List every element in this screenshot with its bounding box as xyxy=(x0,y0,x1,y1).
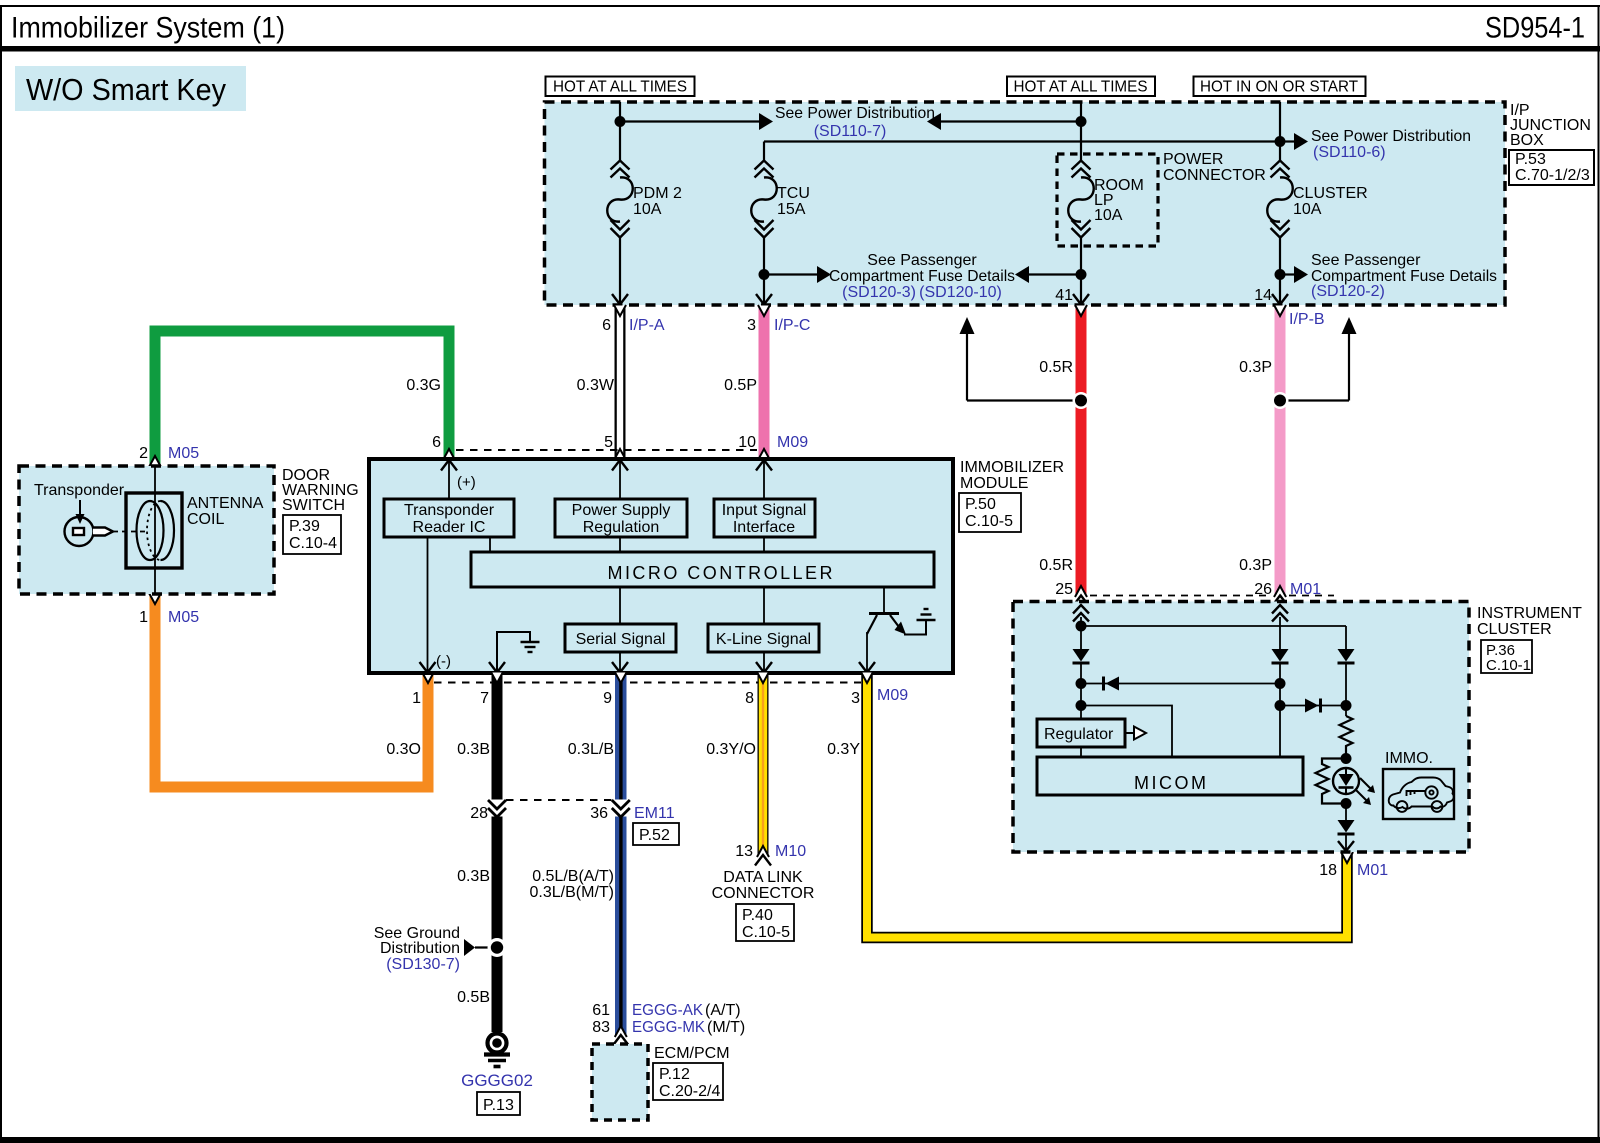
svg-text:0.3L/B: 0.3L/B xyxy=(568,741,614,758)
svg-text:P.50: P.50 xyxy=(965,496,996,513)
node dots on pink branch xyxy=(1275,678,1286,689)
svg-text:INSTRUMENT: INSTRUMENT xyxy=(1477,605,1582,622)
wire top horizontal to right branch xyxy=(1081,625,1346,627)
wire into Regulator xyxy=(1080,706,1082,720)
svg-text:3: 3 xyxy=(747,317,756,334)
Transponder Reader IC box xyxy=(384,499,514,537)
svg-text:M05: M05 xyxy=(168,609,199,626)
wire 0.3L/B blue (pin 9) xyxy=(530,672,631,1046)
diode E xyxy=(1338,820,1355,834)
note See Power Distribution (SD110-7) xyxy=(775,105,935,140)
svg-text:0.3B: 0.3B xyxy=(457,741,490,758)
svg-text:M01: M01 xyxy=(1357,862,1388,879)
arrow right toward See Passenger xyxy=(817,266,831,283)
note See Power Distribution (SD110-6) xyxy=(1311,128,1471,161)
wire 0.3P (pin14 pink) xyxy=(1239,305,1321,606)
wire ISI to micro controller xyxy=(763,537,765,552)
DATA LINK CONNECTOR label xyxy=(712,869,815,941)
See Ground Distribution note xyxy=(374,925,492,973)
diode B (pointing left) xyxy=(1104,677,1120,691)
wire to SD110-6 arrow xyxy=(1280,140,1294,142)
node dot3 xyxy=(1076,700,1087,711)
svg-text:HOT IN ON OR START: HOT IN ON OR START xyxy=(1200,79,1358,96)
svg-text:CLUSTER: CLUSTER xyxy=(1293,185,1368,202)
MICOM box xyxy=(1037,757,1303,795)
svg-text:Serial Signal: Serial Signal xyxy=(576,631,666,648)
node: dot on black wire xyxy=(488,938,507,957)
svg-text:See Power Distribution: See Power Distribution xyxy=(1311,128,1471,145)
svg-text:IMMO.: IMMO. xyxy=(1385,750,1433,767)
svg-text:POWER: POWER xyxy=(1163,151,1223,168)
svg-text:(SD110-7): (SD110-7) xyxy=(814,123,887,140)
svg-text:83: 83 xyxy=(592,1019,610,1036)
svg-text:EM11: EM11 xyxy=(634,805,675,822)
svg-text:2: 2 xyxy=(139,445,148,462)
svg-text:TCU: TCU xyxy=(777,185,810,202)
immobilizer module box xyxy=(369,459,953,673)
svg-text:I/P-A: I/P-A xyxy=(629,317,665,334)
svg-text:0.3W: 0.3W xyxy=(577,377,615,394)
wire 0.3W (pin5 white) xyxy=(577,305,626,460)
wire to SD120-2 arrow xyxy=(1280,273,1294,275)
svg-text:0.5B: 0.5B xyxy=(457,989,490,1006)
svg-text:ANTENNA: ANTENNA xyxy=(187,495,264,512)
label HOT IN ON OR START xyxy=(1194,77,1366,97)
svg-text:(SD120-3) (SD120-10): (SD120-3) (SD120-10) xyxy=(842,284,1002,301)
svg-text:(M/T): (M/T) xyxy=(707,1019,745,1036)
svg-text:CLUSTER: CLUSTER xyxy=(1477,621,1552,638)
svg-text:MODULE: MODULE xyxy=(960,475,1028,492)
svg-text:M09: M09 xyxy=(777,434,808,451)
svg-text:10A: 10A xyxy=(633,201,662,218)
svg-text:HOT AT ALL TIMES: HOT AT ALL TIMES xyxy=(1014,79,1148,96)
svg-text:(SD120-2): (SD120-2) xyxy=(1311,283,1385,300)
I/P JUNCTION BOX side label xyxy=(1509,102,1594,185)
transistor Q1 xyxy=(867,587,936,671)
svg-text:(SD110-6): (SD110-6) xyxy=(1313,144,1386,161)
svg-text:EGGG-MK: EGGG-MK xyxy=(632,1019,705,1036)
wire 0.3Y/O (pin 8) xyxy=(706,672,771,866)
svg-text:CONNECTOR: CONNECTOR xyxy=(1163,167,1266,184)
svg-text:15A: 15A xyxy=(777,201,806,218)
svg-text:Compartment Fuse Details: Compartment Fuse Details xyxy=(829,268,1015,285)
svg-text:28: 28 xyxy=(470,805,488,822)
K-Line Signal box xyxy=(708,624,819,652)
transponder key symbol xyxy=(65,517,147,546)
wire regulator to MICOM xyxy=(1080,747,1082,757)
svg-text:P.53: P.53 xyxy=(1515,151,1546,168)
horizontal with diode D to right branch xyxy=(1280,705,1346,707)
wire TRIC to pin 1 xyxy=(427,537,429,671)
wire Serial Signal to pin 9 xyxy=(619,652,621,671)
wire 0.3G (green loop) xyxy=(149,331,455,467)
Power Supply Regulation box xyxy=(555,499,687,537)
svg-text:ECM/PCM: ECM/PCM xyxy=(654,1045,730,1062)
svg-text:IMMOBILIZER: IMMOBILIZER xyxy=(960,459,1064,476)
svg-text:7: 7 xyxy=(480,690,489,707)
svg-text:36: 36 xyxy=(590,805,608,822)
node: junction dot TCU low xyxy=(759,269,770,280)
POWER CONNECTOR label xyxy=(1163,151,1266,184)
wire: bus PDM2 to ROOM LP (y=121.5) xyxy=(620,120,1081,122)
svg-text:C.10-4: C.10-4 xyxy=(289,535,337,552)
svg-text:Input Signal: Input Signal xyxy=(722,502,807,519)
svg-text:Reader IC: Reader IC xyxy=(413,519,486,536)
svg-text:C.10-5: C.10-5 xyxy=(742,924,790,941)
svg-text:BOX: BOX xyxy=(1510,132,1544,149)
svg-text:8: 8 xyxy=(745,690,754,707)
pin exit arrows at box bottom xyxy=(612,294,628,305)
branch arrow up (red wire) xyxy=(960,317,1082,401)
wire 0.3Y (pin 3 to cluster pin 18) xyxy=(827,672,1353,938)
svg-text:Interface: Interface xyxy=(733,519,795,536)
diode D (pointing right) xyxy=(1305,699,1321,713)
IMMO indicator box with car icon xyxy=(1383,769,1454,819)
Regulator box xyxy=(1037,719,1125,747)
svg-text:SWITCH: SWITCH xyxy=(282,497,345,514)
svg-text:See Passenger: See Passenger xyxy=(867,252,977,269)
LED light arrows xyxy=(1356,778,1375,805)
svg-text:HOT AT ALL TIMES: HOT AT ALL TIMES xyxy=(553,79,687,96)
node dot LED bottom xyxy=(1341,798,1352,809)
pin 6 entry arrow xyxy=(441,460,457,471)
node dot top left xyxy=(1076,621,1087,632)
IMMOBILIZER MODULE side label xyxy=(959,459,1064,532)
pin 25 entry chevrons xyxy=(1073,605,1089,622)
svg-text:0.3P: 0.3P xyxy=(1239,359,1272,376)
svg-text:MICOM: MICOM xyxy=(1134,773,1206,793)
W/O Smart Key highlight xyxy=(15,66,246,111)
svg-text:P.40: P.40 xyxy=(742,907,773,924)
svg-text:See Power Distribution: See Power Distribution xyxy=(775,105,935,122)
wire micro to K-Line Signal xyxy=(763,587,765,624)
svg-text:9: 9 xyxy=(603,690,612,707)
wire dot3 to MICOM (via x=1172) xyxy=(1081,706,1172,758)
power connector dashed box xyxy=(1057,154,1158,246)
INSTRUMENT CLUSTER side label xyxy=(1477,605,1582,674)
svg-text:6: 6 xyxy=(602,317,611,334)
I/P junction box (dashed) xyxy=(545,102,1506,305)
svg-text:18: 18 xyxy=(1319,862,1337,879)
svg-text:13: 13 xyxy=(735,843,753,860)
svg-text:Regulator: Regulator xyxy=(1044,726,1114,743)
svg-text:C.10-5: C.10-5 xyxy=(965,513,1013,530)
wire pink branch vertical xyxy=(1279,617,1281,649)
svg-text:DATA LINK: DATA LINK xyxy=(723,869,803,886)
svg-text:M05: M05 xyxy=(168,445,199,462)
svg-text:(+): (+) xyxy=(457,474,476,491)
arrow left toward See Passenger xyxy=(1015,266,1029,283)
pin 18 exit chevrons xyxy=(1338,841,1354,851)
branch arrow up (pink wire) xyxy=(1280,317,1357,401)
module bottom pin exit arrows xyxy=(420,662,436,673)
node: junction dot CLUSTER low xyxy=(1275,269,1286,280)
antenna coil square xyxy=(126,493,182,568)
svg-text:COIL: COIL xyxy=(187,511,224,528)
diode C xyxy=(1272,649,1289,663)
node: junction dot ROOM LP bus xyxy=(1076,116,1087,127)
svg-text:25: 25 xyxy=(1055,581,1073,598)
svg-text:0.5R: 0.5R xyxy=(1039,557,1073,574)
wire red branch vertical xyxy=(1080,617,1082,649)
svg-text:10: 10 xyxy=(738,434,756,451)
node: junction dot CLUSTER bus xyxy=(1275,136,1286,147)
svg-text:10A: 10A xyxy=(1293,201,1322,218)
svg-text:1: 1 xyxy=(412,690,421,707)
svg-text:W/O Smart Key: W/O Smart Key xyxy=(26,72,226,107)
fuse PDM 2 10A xyxy=(607,102,682,303)
door warning switch box (dashed) xyxy=(19,466,274,594)
ground GGGG02 xyxy=(461,1034,533,1116)
connector 61/83 EGGG labels xyxy=(592,1002,745,1036)
svg-text:See Passenger: See Passenger xyxy=(1311,252,1421,269)
svg-text:SD954-1: SD954-1 xyxy=(1485,12,1585,45)
module connector dashed line (top) xyxy=(456,449,757,451)
node: junction dot PDM2 bus xyxy=(615,116,626,127)
svg-text:(SD130-7): (SD130-7) xyxy=(386,956,460,973)
svg-text:EGGG-AK: EGGG-AK xyxy=(632,1002,703,1019)
wire: bus TCU to CLUSTER (y=141.5) xyxy=(764,140,1280,142)
svg-text:P.39: P.39 xyxy=(289,518,320,535)
svg-text:1: 1 xyxy=(139,609,148,626)
svg-text:P.12: P.12 xyxy=(659,1066,690,1083)
svg-text:0.5R: 0.5R xyxy=(1039,359,1073,376)
svg-text:GGGG02: GGGG02 xyxy=(461,1071,533,1090)
svg-text:0.3Y/O: 0.3Y/O xyxy=(706,741,756,758)
svg-text:P.52: P.52 xyxy=(639,827,670,844)
arrow right toward See Power Distribution SD110-6 xyxy=(1294,133,1308,150)
arrow left toward See Power Distribution xyxy=(927,113,941,130)
wire 0.5R (pin41 red) xyxy=(1039,305,1089,606)
svg-text:MICRO CONTROLLER: MICRO CONTROLLER xyxy=(608,563,833,583)
pin 5 entry arrow xyxy=(612,460,628,471)
svg-text:10A: 10A xyxy=(1094,207,1123,224)
svg-text:C.20-2/4: C.20-2/4 xyxy=(659,1083,720,1100)
svg-text:Distribution: Distribution xyxy=(380,940,460,957)
ECM/PCM box (dashed) xyxy=(592,1044,730,1120)
module connector dashed line (bottom) xyxy=(434,682,861,684)
svg-text:6: 6 xyxy=(432,434,441,451)
note See Passenger Compartment Fuse Details (SD120-3)(SD120-10) xyxy=(829,252,1015,301)
svg-text:0.3O: 0.3O xyxy=(386,741,421,758)
svg-text:Transponder: Transponder xyxy=(34,482,125,499)
svg-text:PDM 2: PDM 2 xyxy=(633,185,682,202)
note See Passenger Compartment Fuse Details (SD120-2) xyxy=(1311,252,1497,300)
node: junction dot ROOM LP low xyxy=(1076,269,1087,280)
svg-text:P.13: P.13 xyxy=(483,1097,514,1114)
wire K-Line to pin 8 xyxy=(763,652,765,671)
svg-text:0.5P: 0.5P xyxy=(724,377,757,394)
svg-text:(A/T): (A/T) xyxy=(705,1002,741,1019)
node: junction dot on red wire xyxy=(1073,392,1090,409)
svg-text:0.3B: 0.3B xyxy=(457,868,490,885)
wire: TCU lower junction to text xyxy=(764,273,817,275)
arrow from label to key xyxy=(76,500,85,524)
svg-text:C.70-1/2/3: C.70-1/2/3 xyxy=(1515,167,1590,184)
svg-text:I/P-C: I/P-C xyxy=(774,317,810,334)
wire 0.3O (orange loop) xyxy=(149,593,434,787)
connector M01 dashed line (cluster top) xyxy=(1090,595,1271,597)
svg-text:M09: M09 xyxy=(877,687,908,704)
svg-text:Power Supply: Power Supply xyxy=(572,502,671,519)
svg-text:5: 5 xyxy=(604,434,613,451)
DOOR WARNING SWITCH label xyxy=(282,467,359,554)
svg-text:Regulation: Regulation xyxy=(583,519,660,536)
node: junction dot on pink wire xyxy=(1272,392,1289,409)
svg-text:0.3G: 0.3G xyxy=(406,377,441,394)
wire: left arrow to ROOM LP line xyxy=(1029,273,1081,275)
pin 10 entry arrow xyxy=(756,460,772,471)
pin 26 entry chevrons xyxy=(1272,605,1288,622)
svg-text:I/P-B: I/P-B xyxy=(1289,311,1325,328)
instrument cluster box (dashed) xyxy=(1013,602,1469,853)
right branch vertical + diode F xyxy=(1345,626,1347,649)
svg-text:41: 41 xyxy=(1055,287,1073,304)
MICRO CONTROLLER box xyxy=(471,552,934,587)
svg-text:0.3L/B(M/T): 0.3L/B(M/T) xyxy=(530,884,614,901)
svg-text:Transponder: Transponder xyxy=(404,502,495,519)
svg-text:0.3Y: 0.3Y xyxy=(827,741,860,758)
wire through coil xyxy=(154,466,156,594)
resistor R1 xyxy=(1340,716,1353,758)
svg-text:M10: M10 xyxy=(775,843,806,860)
resistor R2 (parallel) xyxy=(1316,759,1347,804)
regulator output arrow xyxy=(1125,727,1146,740)
fuse ROOM LP 10A xyxy=(1068,102,1144,303)
horizontal with diode B to pink branch xyxy=(1081,683,1280,685)
wire TRIC to micro controller xyxy=(489,537,491,552)
node dot LED top xyxy=(1341,753,1352,764)
svg-text:0.3P: 0.3P xyxy=(1239,557,1272,574)
arrow right toward See Passenger SD120-2 xyxy=(1294,266,1308,283)
fuse CLUSTER 10A xyxy=(1267,102,1367,303)
svg-text:3: 3 xyxy=(851,690,860,707)
Serial Signal box xyxy=(565,624,676,652)
svg-text:K-Line Signal: K-Line Signal xyxy=(716,631,811,648)
diode A (left top) xyxy=(1073,649,1090,663)
svg-text:0.5L/B(A/T): 0.5L/B(A/T) xyxy=(532,868,614,885)
svg-text:CONNECTOR: CONNECTOR xyxy=(712,885,815,902)
node dot2 xyxy=(1076,678,1087,689)
internal ground (pin 7) xyxy=(497,632,540,671)
wire 0.5P (pin10 pink) xyxy=(724,305,770,460)
arrow right toward See Power Distribution xyxy=(759,113,773,130)
wire 0.3B black (pin 7) xyxy=(457,672,506,1032)
svg-text:(-): (-) xyxy=(436,653,451,670)
coil ellipses xyxy=(137,501,175,560)
LED circle xyxy=(1333,768,1359,794)
label HOT AT ALL TIMES (left) xyxy=(546,77,695,97)
svg-text:Immobilizer System (1): Immobilizer System (1) xyxy=(11,12,285,45)
fuse TCU 15A xyxy=(751,142,810,304)
label HOT AT ALL TIMES (right) xyxy=(1007,77,1155,97)
wire micro to Serial Signal xyxy=(619,587,621,624)
svg-text:14: 14 xyxy=(1254,287,1272,304)
svg-text:C.10-1: C.10-1 xyxy=(1486,657,1531,674)
wire PSR to micro controller xyxy=(619,537,621,552)
Input Signal Interface box xyxy=(714,499,815,537)
connector EM11 dashed line xyxy=(506,799,612,801)
svg-text:61: 61 xyxy=(592,1002,610,1019)
